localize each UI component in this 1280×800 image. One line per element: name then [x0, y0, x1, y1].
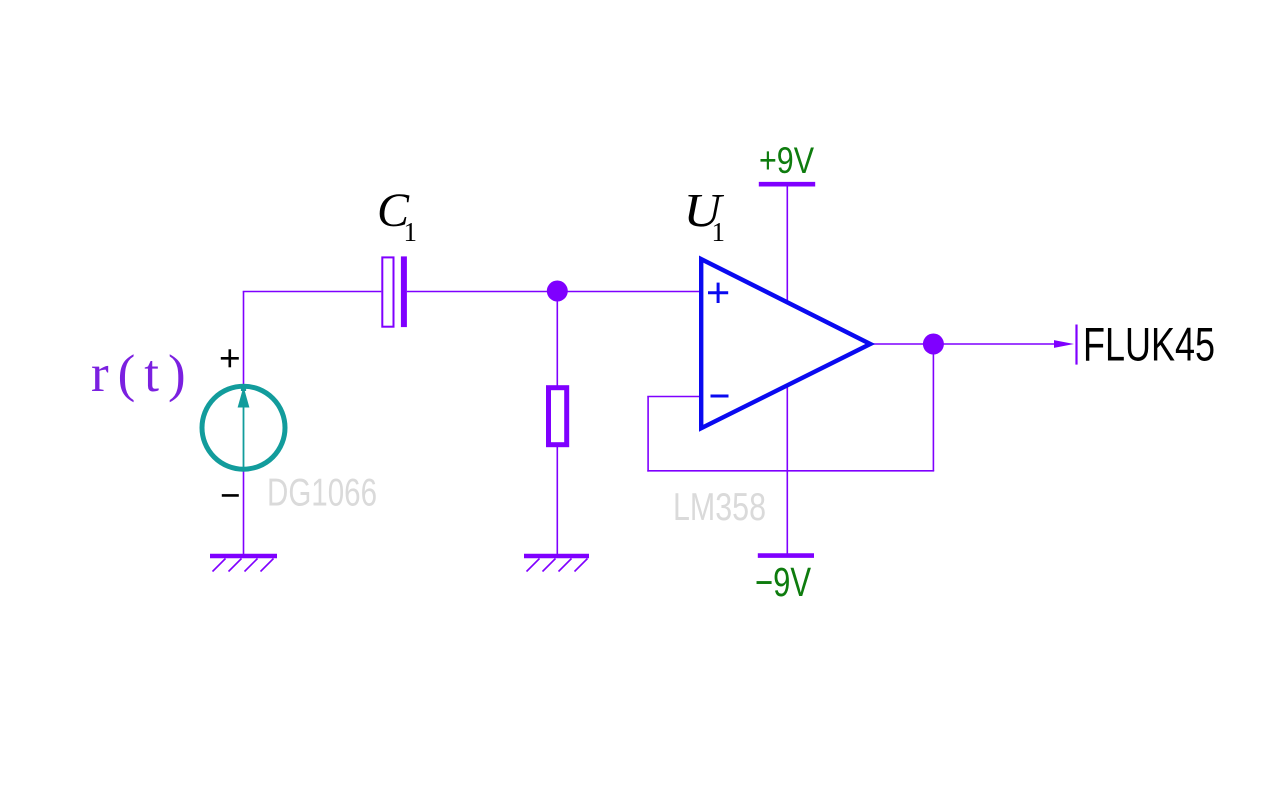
ground (source) hatches: [213, 559, 274, 572]
wire: junction down to resistor: [556, 291, 558, 387]
svg-text:+9V: +9V: [759, 139, 814, 181]
svg-text:1: 1: [404, 217, 418, 247]
wire: source top vertical: [243, 292, 245, 555]
op-amp plus input mark: [708, 283, 728, 303]
voltage source arrow stem: [243, 400, 245, 469]
voltage source V1 circle: [202, 386, 285, 469]
resistor R1: [549, 388, 567, 445]
voltage source arrow head: [238, 387, 250, 408]
svg-text:−9V: −9V: [755, 559, 811, 605]
op-amp U1 triangle: [701, 259, 870, 428]
svg-text:FLUK45: FLUK45: [1083, 318, 1215, 371]
minus sign of source: [222, 494, 239, 497]
op-amp minus input mark: [711, 395, 729, 398]
wire: feedback bottom horizontal: [647, 470, 934, 472]
power +9V bar: [759, 182, 815, 187]
output terminal tick: [1075, 325, 1077, 365]
power -9V bar: [758, 553, 814, 558]
ground (source) bar: [210, 554, 277, 559]
wire: feedback into inverting input: [647, 396, 702, 398]
ground (resistor) bar: [524, 554, 589, 559]
wire: top-left horizontal to capacitor: [243, 291, 382, 293]
wire: resistor to ground: [556, 446, 558, 554]
capacitor C1 right plate: [401, 256, 407, 327]
wire: output horizontal: [870, 343, 1056, 345]
node: junction dot at resistor tap: [547, 281, 568, 302]
wire: power rail vertical +9V to -9V: [786, 185, 788, 555]
plus sign of source: [221, 349, 239, 367]
voltage source arrow tip stub: [241, 385, 246, 391]
wire: feedback left vertical: [647, 397, 649, 472]
capacitor C1 left plate: [382, 257, 393, 326]
node: output junction dot: [923, 334, 944, 355]
svg-text:1: 1: [712, 217, 726, 247]
svg-text:r(t): r(t): [91, 345, 195, 403]
svg-text:DG1066: DG1066: [267, 472, 377, 515]
svg-text:LM358: LM358: [673, 486, 766, 529]
wire: feedback down from output node: [932, 344, 934, 471]
ground (resistor) hatches: [527, 559, 588, 572]
output arrowhead: [1054, 340, 1074, 348]
wire: capacitor to op-amp input: [407, 291, 703, 293]
